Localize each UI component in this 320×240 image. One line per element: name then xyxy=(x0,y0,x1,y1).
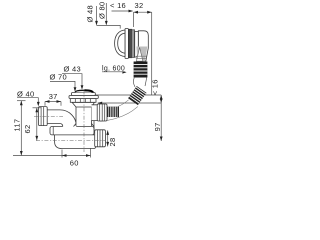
centerline: outlet pipe axis xyxy=(34,116,63,118)
svg-text:37: 37 xyxy=(49,92,58,101)
trap cup nut xyxy=(95,130,106,147)
dimension 32 xyxy=(134,11,152,95)
svg-text:Ø 80: Ø 80 xyxy=(98,2,107,19)
wire: hose break line lower lower-wall xyxy=(100,107,138,122)
wire: hose break line upper right xyxy=(145,78,147,86)
svg-text:< 16: < 16 xyxy=(110,1,126,10)
svg-text:117: 117 xyxy=(13,119,22,132)
hose corrugated section (diagonal, dark) xyxy=(128,86,146,105)
overflow cap dome (Ø48) xyxy=(115,30,125,57)
under flange plate (Ø70) xyxy=(69,96,98,99)
svg-text:97: 97 xyxy=(153,122,162,131)
svg-text:32: 32 xyxy=(135,1,144,10)
svg-text:60: 60 xyxy=(70,158,79,167)
wire: hose break line upper left xyxy=(133,78,135,87)
dimension 117 xyxy=(17,101,26,156)
wire: body to bowl flare left xyxy=(74,124,77,127)
funnel cone xyxy=(136,47,148,62)
svg-text:lg. 600: lg. 600 xyxy=(102,65,125,72)
wire: neck seam right of bowl xyxy=(93,121,95,130)
dimension Ø43 leader xyxy=(62,74,83,90)
wire: extension line A (tub top level) xyxy=(90,94,161,97)
dimension lg.600 leader xyxy=(102,71,127,73)
wall slab (gray) xyxy=(132,30,135,58)
svg-text:62: 62 xyxy=(23,125,32,134)
top flange ring xyxy=(72,93,96,96)
dimension 62 xyxy=(33,108,42,141)
dimension <16 top leader xyxy=(112,10,134,13)
wire: hose break line lower upper-wall xyxy=(118,100,128,107)
dimension Ø80 leader xyxy=(105,3,108,25)
locknut xyxy=(70,99,96,103)
trap main bowl xyxy=(55,135,96,149)
hose corrugated section (vertical, dark) xyxy=(134,62,148,78)
body taper cone xyxy=(72,102,95,107)
siphon body column xyxy=(76,107,92,126)
side threaded spigot (dark) xyxy=(107,107,119,117)
wire: extension line B (inlet top level) xyxy=(98,102,162,105)
dimension 28 xyxy=(106,130,109,146)
side outlet nut xyxy=(97,104,107,121)
gasket slab (dark) xyxy=(129,29,132,57)
overflow elbow body U1 xyxy=(138,31,148,61)
svg-text:28: 28 xyxy=(108,138,117,147)
centerline: body axis vertical xyxy=(83,91,85,153)
outlet elbow xyxy=(60,110,76,128)
wire: body to bowl flare right xyxy=(92,124,95,127)
dimension Ø70 leader xyxy=(50,81,76,91)
svg-text:Ø 48: Ø 48 xyxy=(86,5,95,22)
svg-text:< 16: < 16 xyxy=(151,79,160,95)
trap upper bowl chamber xyxy=(50,127,94,135)
dimension 97 xyxy=(160,103,163,141)
drain plug cover (Ø43) xyxy=(75,90,93,92)
outlet pipe xyxy=(47,110,60,124)
outlet nut (Ø40) xyxy=(39,107,48,126)
svg-text:Ø 40: Ø 40 xyxy=(17,89,34,98)
dimension Ø48 leader xyxy=(95,6,120,29)
overflow mounting slab (flange Ø80) xyxy=(125,29,128,59)
backnut slab xyxy=(135,32,139,58)
side outlet neck xyxy=(92,105,98,121)
centerline: bowl axis horizontal xyxy=(36,140,106,142)
dimension <16 right (vertical) xyxy=(160,95,163,103)
dimension Ø40 leader xyxy=(17,98,40,107)
dimension 60 xyxy=(13,148,91,158)
svg-text:Ø 70: Ø 70 xyxy=(50,73,67,82)
dimension 37 xyxy=(45,100,61,106)
